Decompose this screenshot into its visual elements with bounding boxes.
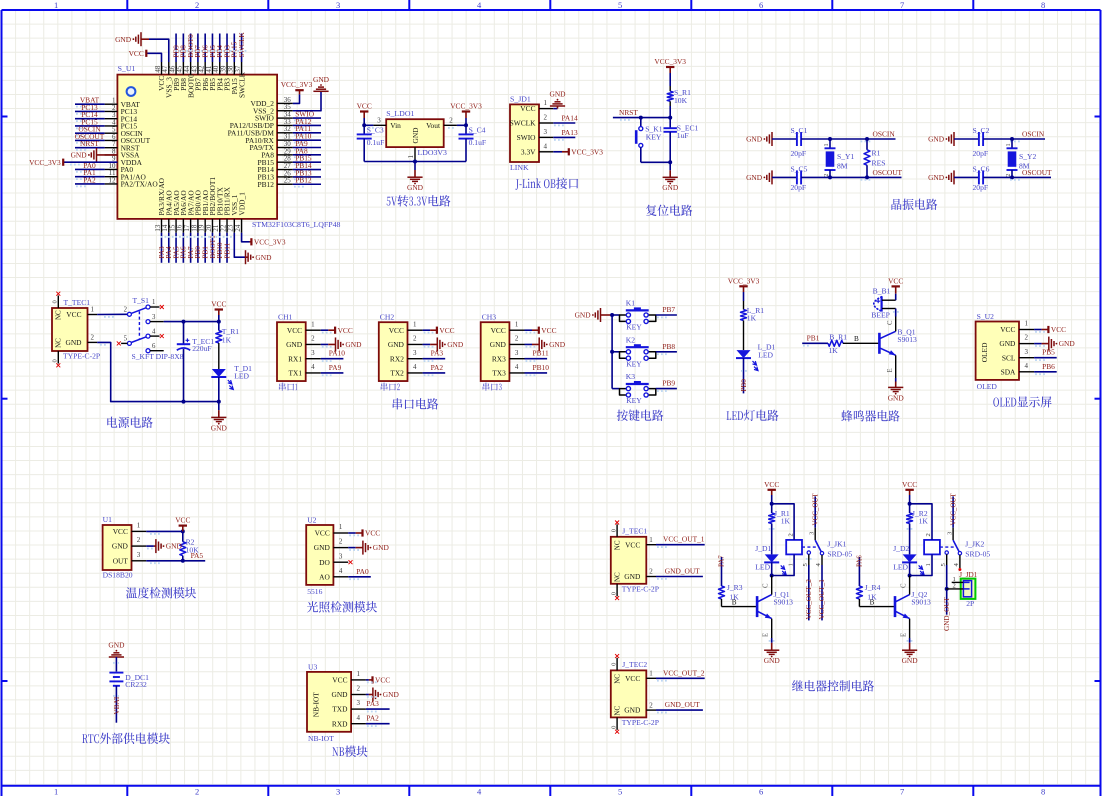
svg-text:5: 5 xyxy=(124,336,128,343)
svg-text:SRD-05: SRD-05 xyxy=(827,550,852,559)
relay J_JK2 common pin 3 VCC_OUT xyxy=(946,492,957,540)
relay J_JK1 pin 5 to VCC_OUT_2 xyxy=(802,554,813,620)
ground at key circuit xyxy=(575,308,613,322)
svg-text:GND: GND xyxy=(888,393,905,402)
power port VCC_3V3 at MCU pin 9 VDDA xyxy=(29,158,117,167)
svg-text:B: B xyxy=(870,599,875,607)
svg-text:PA9: PA9 xyxy=(329,363,342,372)
svg-text:KEY: KEY xyxy=(626,396,642,405)
svg-text:GND: GND xyxy=(115,35,132,44)
T_TEC1 pin 1 VCC stub xyxy=(88,306,98,315)
svg-text:OUT: OUT xyxy=(113,556,129,565)
svg-text:PA2/TX/AO: PA2/TX/AO xyxy=(121,180,159,189)
svg-text:VCC: VCC xyxy=(625,540,640,549)
svg-text:CH1: CH1 xyxy=(278,313,293,322)
title crystal circuit xyxy=(891,199,937,210)
svg-text:OSCOUT: OSCOUT xyxy=(873,168,903,177)
LED L_D1 xyxy=(736,342,776,370)
DS18B20 U1 body xyxy=(103,515,133,580)
svg-text:PB0: PB0 xyxy=(740,379,748,392)
battery D_DC1 CR232 xyxy=(109,673,149,689)
svg-text:BEEP: BEEP xyxy=(871,311,890,320)
svg-text:GND: GND xyxy=(286,340,303,349)
header CH3 pin 3 RX3 xyxy=(492,349,525,364)
svg-text:U1: U1 xyxy=(103,515,112,524)
svg-text:3: 3 xyxy=(152,314,156,321)
svg-text:T_S1: T_S1 xyxy=(133,296,150,305)
header CH1 pin 3 RX1 xyxy=(288,349,321,364)
MCU U1 top pin 45 PB8 xyxy=(176,34,188,91)
svg-text:4: 4 xyxy=(515,363,519,371)
wire CH1 pin 3 to PA10 xyxy=(321,349,345,362)
power port VCC relay J_R2 xyxy=(902,480,917,504)
svg-text:24: 24 xyxy=(234,224,242,232)
svg-text:GND: GND xyxy=(407,183,424,192)
svg-text:S_KFT DIP-8X8: S_KFT DIP-8X8 xyxy=(132,352,184,361)
resistor T_R1 1K xyxy=(216,322,240,369)
header U3 pin 2 GND xyxy=(331,685,365,700)
svg-text:2: 2 xyxy=(953,583,956,590)
svg-text:VCC_3V3: VCC_3V3 xyxy=(654,57,686,66)
title buzzer circuit xyxy=(841,410,899,421)
capacitor C3 0.1uF xyxy=(357,125,385,161)
resistor R1 RES (crystal) xyxy=(864,139,885,177)
power port VCC_3V3 at J-Link pin 4 xyxy=(553,147,603,156)
wire K3 to PB9 xyxy=(656,379,677,392)
svg-text:NC: NC xyxy=(55,338,63,348)
svg-text:VCC: VCC xyxy=(1051,325,1066,334)
svg-text:VCC_OUT_2: VCC_OUT_2 xyxy=(663,668,705,677)
svg-text:B: B xyxy=(732,599,737,607)
svg-text:GND: GND xyxy=(255,253,272,262)
header U3 pin 3 TXD xyxy=(332,699,366,714)
wire J_D2 cathode to collector node xyxy=(908,502,912,578)
svg-text:20pF: 20pF xyxy=(791,149,807,158)
header S_U2 body xyxy=(976,312,1019,391)
svg-text:RX2: RX2 xyxy=(390,354,404,363)
wire J_TEC1 GND to GND_OUT xyxy=(656,567,703,580)
MCU U1 right pin 35 VSS_2 xyxy=(253,103,293,115)
svg-text:PB1: PB1 xyxy=(807,334,820,343)
DS18B20 pin 3 OUT xyxy=(113,551,147,566)
LDO regulator U LDO1 body xyxy=(386,109,447,157)
wire CH2 pin 3 to PA3 xyxy=(423,349,446,362)
relay J_JK1 coil xyxy=(772,504,853,576)
svg-text:VCC: VCC xyxy=(365,529,380,538)
svg-text:SCL: SCL xyxy=(1002,353,1016,362)
resistor B_R1 1K xyxy=(828,332,879,355)
svg-text:3: 3 xyxy=(515,349,519,357)
MCU U1 top pin 42 PB6 xyxy=(198,34,210,91)
svg-text:VCC: VCC xyxy=(375,676,390,685)
svg-text:TYPE-C-2P: TYPE-C-2P xyxy=(63,352,100,361)
MCU U1 left pin 5 OSCIN xyxy=(75,125,143,138)
svg-text:PB12: PB12 xyxy=(257,180,274,189)
svg-text:J_JK1: J_JK1 xyxy=(827,540,846,549)
svg-text:K2: K2 xyxy=(626,335,635,344)
power port VCC at S_U2 pin 1 xyxy=(1034,325,1066,334)
svg-text:4: 4 xyxy=(1024,362,1028,370)
svg-text:0.1uF: 0.1uF xyxy=(367,138,385,147)
resistor J_R2 1K xyxy=(907,504,929,555)
svg-text:VCC: VCC xyxy=(888,276,903,285)
J_TEC1 pin 1 VCC stub xyxy=(646,536,656,545)
MCU U1 top pin 39 PB3 xyxy=(219,34,231,91)
svg-text:R1: R1 xyxy=(872,149,881,158)
svg-text:PB7: PB7 xyxy=(662,305,675,314)
LDO pin 2 Vout stub xyxy=(444,117,457,126)
wire CH1 pin 4 to PA9 xyxy=(321,363,344,376)
svg-text:S9013: S9013 xyxy=(911,597,931,606)
title 5V to 3.3V xyxy=(387,195,451,206)
svg-text:J_TEC2: J_TEC2 xyxy=(622,660,647,669)
MCU U1 right pin 28 PB15 xyxy=(257,154,321,167)
ground at U3 pin 2 xyxy=(366,688,400,702)
no-connect at U2 pin 3 xyxy=(349,560,353,564)
MCU U1 left pin 11 PA1/AO xyxy=(75,168,146,181)
MCU U1 right pin 31 PA10/RX xyxy=(245,132,321,145)
svg-text:GND: GND xyxy=(902,656,919,665)
J-Link pin 2 SWCLK xyxy=(510,114,554,128)
ground at buzzer xyxy=(888,382,905,403)
svg-text:2: 2 xyxy=(124,306,128,313)
T_TEC1 pin 2 GND stub xyxy=(88,334,98,343)
svg-text:RX3: RX3 xyxy=(492,354,506,363)
wire emitter of J_Q2 to ground xyxy=(907,619,913,643)
svg-text:NC: NC xyxy=(613,674,621,684)
wire reset bottom xyxy=(641,160,672,170)
svg-text:VCC_3V3: VCC_3V3 xyxy=(281,80,313,89)
svg-text:VCC: VCC xyxy=(338,326,353,335)
wire CH3 pin 3 to PB11 xyxy=(525,349,549,362)
ground at J-Link pin 1 xyxy=(549,90,566,109)
MCU U1 bottom pin 22 PB11/RX xyxy=(219,186,231,262)
header CH3 pin 4 TX3 xyxy=(492,363,524,378)
svg-text:1: 1 xyxy=(91,306,95,314)
power port VCC (power circuit) xyxy=(211,300,226,322)
svg-text:PA3: PA3 xyxy=(431,349,444,358)
svg-text:8: 8 xyxy=(1041,786,1045,796)
power port VCC at U3 pin 1 xyxy=(366,676,390,685)
relay J_JK2 pin 5 to GND_OUT and JD1 pin 2 xyxy=(940,554,951,631)
transistor B_Q1 S9013 xyxy=(879,320,917,373)
svg-text:S_U1: S_U1 xyxy=(118,64,136,73)
title power circuit xyxy=(107,417,152,428)
wire emitter to ground xyxy=(895,355,897,381)
wire S_U2 pin 4 to PB6 xyxy=(1034,362,1057,375)
svg-text:GND: GND xyxy=(411,127,420,144)
svg-text:1: 1 xyxy=(787,563,794,566)
svg-text:7: 7 xyxy=(900,0,904,10)
MCU U1 right pin 29 PA8 xyxy=(261,146,321,159)
svg-text:VCC: VCC xyxy=(389,326,404,335)
svg-text:VCC_OUT: VCC_OUT xyxy=(949,492,957,525)
wire key ground bus xyxy=(610,313,614,389)
svg-text:J_TEC1: J_TEC1 xyxy=(622,527,647,536)
svg-text:E: E xyxy=(887,368,894,372)
svg-text:E: E xyxy=(900,633,907,637)
svg-text:VBAT: VBAT xyxy=(113,695,121,714)
wire TEC1 VCC to switch xyxy=(97,314,127,318)
svg-text:4: 4 xyxy=(311,363,315,371)
svg-text:VCC_3V3: VCC_3V3 xyxy=(571,147,603,156)
MCU U1 STM32F103C8T6 body xyxy=(117,64,340,229)
svg-text:GND: GND xyxy=(166,542,183,551)
svg-text:S_LDO1: S_LDO1 xyxy=(386,109,414,118)
svg-text:GND: GND xyxy=(71,151,88,160)
svg-text:GND: GND xyxy=(928,173,945,182)
power port VCC at CH3 pin 1 xyxy=(525,326,557,335)
svg-text:GND: GND xyxy=(746,135,763,144)
svg-text:LED: LED xyxy=(755,562,770,571)
svg-text:GND: GND xyxy=(331,690,348,699)
svg-text:Vout: Vout xyxy=(426,121,441,130)
header U2 pin 3 DO xyxy=(319,552,348,567)
header U3 pin 4 RXD xyxy=(332,714,366,729)
header S_U2 pin 1 VCC xyxy=(1000,320,1034,335)
svg-text:GND: GND xyxy=(313,75,330,84)
MCU U1 bottom pin 18 PB0/AO xyxy=(190,189,202,262)
svg-text:4: 4 xyxy=(413,363,417,371)
svg-text:12: 12 xyxy=(109,176,117,184)
header CH2 body xyxy=(379,313,408,391)
svg-text:PB8: PB8 xyxy=(662,342,675,351)
svg-text:S_JD1: S_JD1 xyxy=(510,94,531,103)
svg-text:2: 2 xyxy=(195,0,199,10)
svg-text:1: 1 xyxy=(1024,320,1028,328)
svg-text:PA13: PA13 xyxy=(562,128,578,137)
svg-text:PB6: PB6 xyxy=(1042,362,1055,371)
relay J_JK2 coil xyxy=(910,504,991,576)
svg-text:TYPE-C-2P: TYPE-C-2P xyxy=(622,718,659,727)
svg-text:S_U2: S_U2 xyxy=(977,312,995,321)
ground at MCU pin 35 VSS_2 xyxy=(293,75,330,111)
svg-text:1: 1 xyxy=(311,320,315,328)
svg-text:10K: 10K xyxy=(674,96,688,105)
ground at crystal S_C2 top xyxy=(928,132,954,146)
wire U3 pin 3 to PA3 xyxy=(366,699,390,712)
svg-text:OSCIN: OSCIN xyxy=(873,130,896,139)
MCU U1 bottom pin 13 PA3/RX/AO xyxy=(154,177,166,262)
MCU U1 right pin 34 SWIO xyxy=(255,110,321,123)
svg-text:3: 3 xyxy=(339,552,343,560)
wire CH2 pin 4 to PA2 xyxy=(423,363,446,376)
MCU U1 left pin 2 PC13 xyxy=(75,103,137,116)
header S_U2 pin 3 SCL xyxy=(1002,348,1034,363)
svg-text:U3: U3 xyxy=(308,662,317,671)
header CH1 body xyxy=(277,313,306,391)
svg-text:2: 2 xyxy=(787,533,794,536)
MCU U1 bottom pin 15 PA5/AO xyxy=(168,190,180,263)
svg-text:J_D2: J_D2 xyxy=(893,544,909,553)
svg-text:25: 25 xyxy=(284,177,292,185)
MCU U1 left pin 3 PC14 xyxy=(75,110,137,123)
MCU U1 bottom pin 20 PB2/BOOT1 xyxy=(205,177,217,263)
svg-text:S_C6: S_C6 xyxy=(973,164,990,173)
svg-text:3: 3 xyxy=(137,551,141,559)
svg-text:1K: 1K xyxy=(222,335,232,344)
svg-text:GND: GND xyxy=(1059,339,1076,348)
svg-text:KEY: KEY xyxy=(626,359,642,368)
svg-text:5: 5 xyxy=(618,0,622,10)
wire TEC1 GND to bottom rail xyxy=(97,342,221,403)
svg-text:PA2: PA2 xyxy=(366,714,379,723)
capacitor S_C2 20pF xyxy=(954,126,990,158)
svg-text:NC: NC xyxy=(55,310,63,320)
title J-Link OB xyxy=(515,178,578,190)
MCU U1 left pin 7 NRST xyxy=(75,139,140,152)
ground at MCU pin 8 VSSA xyxy=(71,148,118,162)
MCU U1 left pin 6 OSCOUT xyxy=(75,132,151,145)
svg-text:4: 4 xyxy=(339,567,343,575)
power port VCC at U2 pin 1 xyxy=(348,529,380,538)
svg-text:PA10: PA10 xyxy=(329,349,345,358)
MCU U1 top pin 44 BOOT0 xyxy=(183,34,195,98)
MCU U1 bottom pin 24 VDD_1 xyxy=(234,192,246,233)
svg-text:VCC_3V3: VCC_3V3 xyxy=(254,237,286,246)
svg-text:VCC: VCC xyxy=(315,529,330,538)
svg-text:GND: GND xyxy=(112,542,129,551)
LED J_D2 xyxy=(893,544,924,575)
power port VCC at CH2 pin 1 xyxy=(423,326,455,335)
MCU U1 right pin 26 PB13 xyxy=(257,168,321,181)
svg-text:GND: GND xyxy=(662,183,679,192)
wire PB1 to base resistor xyxy=(802,334,828,347)
MCU U1 bottom pin 23 VSS_1 xyxy=(227,194,239,233)
TYPE-C connector J_TEC1 body xyxy=(611,527,659,594)
MCU U1 bottom pin 19 PB1/AO xyxy=(198,189,210,262)
ground at crystal S_C5 bottom xyxy=(746,170,772,184)
svg-text:1: 1 xyxy=(357,670,361,678)
svg-text:2: 2 xyxy=(544,114,548,122)
svg-text:VCC: VCC xyxy=(439,326,454,335)
svg-text:2: 2 xyxy=(137,536,141,544)
MCU U1 bottom pin 21 PB10/TX xyxy=(212,187,224,263)
MCU U1 top pin 38 PA15 xyxy=(227,34,239,95)
power port VCC buzzer xyxy=(888,276,903,300)
power port VCC_3V3 at MCU pin 24 VDD_1 xyxy=(242,233,286,247)
svg-text:C: C xyxy=(900,583,907,588)
ground at crystal S_C6 bottom xyxy=(928,170,954,184)
svg-text:PB10: PB10 xyxy=(533,363,550,372)
svg-text:J_R4: J_R4 xyxy=(865,583,881,592)
svg-text:1: 1 xyxy=(649,670,653,678)
wire R1 to NRST node xyxy=(669,106,671,118)
capacitor S_C5 20pF xyxy=(772,164,808,191)
T_TEC1 bottom no-connect pin 0 xyxy=(52,351,61,367)
push button K2 KEY xyxy=(612,335,656,368)
MCU U1 bottom pin 16 PA6/AO xyxy=(176,190,188,263)
svg-text:DS18B20: DS18B20 xyxy=(103,571,133,580)
wire base of J_Q1 xyxy=(722,599,758,607)
svg-text:PA3: PA3 xyxy=(366,699,379,708)
header CH2 pin 4 TX2 xyxy=(390,363,422,378)
svg-text:VCC: VCC xyxy=(541,326,556,335)
svg-text:GND: GND xyxy=(490,340,507,349)
MCU U1 top pin 43 PB7 xyxy=(190,34,202,91)
wire LDO ground rail xyxy=(364,160,466,171)
MCU U1 right pin 27 PB14 xyxy=(257,161,321,174)
header CH1 pin 4 TX1 xyxy=(289,363,321,378)
TYPE-C connector T_TEC1 body xyxy=(52,298,100,361)
svg-text:20pF: 20pF xyxy=(973,183,989,192)
svg-text:1: 1 xyxy=(413,320,417,328)
svg-text:1: 1 xyxy=(1005,143,1012,146)
header CH1 pin 2 GND xyxy=(286,335,321,350)
svg-text:KEY: KEY xyxy=(646,133,662,142)
svg-text:VCC: VCC xyxy=(357,102,372,111)
wire buzzer to collector xyxy=(893,309,899,332)
header U2 pin 4 AO xyxy=(319,567,348,582)
resistor L_R1 1K xyxy=(741,301,765,350)
svg-text:3: 3 xyxy=(336,0,340,10)
J_TEC1 bottom no-connect pin 0 xyxy=(610,584,619,600)
svg-text:GND_OUT: GND_OUT xyxy=(665,700,700,709)
svg-text:B: B xyxy=(854,335,859,343)
svg-text:GND: GND xyxy=(388,340,405,349)
svg-text:GND: GND xyxy=(746,173,763,182)
svg-text:VCC: VCC xyxy=(625,674,640,683)
title RTC supply module xyxy=(82,733,170,744)
svg-text:3: 3 xyxy=(311,349,315,357)
svg-text:1: 1 xyxy=(54,786,58,796)
svg-text:S_C4: S_C4 xyxy=(469,126,486,135)
MCU U1 right pin 33 PA12/USB/DP xyxy=(230,117,321,130)
svg-text:OLED: OLED xyxy=(980,342,989,362)
svg-text:J_D1: J_D1 xyxy=(755,544,771,553)
svg-text:B_R1: B_R1 xyxy=(829,332,847,341)
svg-text:PA2: PA2 xyxy=(431,363,444,372)
svg-text:STM32F103C8T6_LQFP48: STM32F103C8T6_LQFP48 xyxy=(252,220,340,229)
capacitor S_C6 20pF xyxy=(954,164,990,191)
svg-text:RES: RES xyxy=(872,158,886,167)
wire J_TEC1 VCC to VCC_OUT_1 xyxy=(656,535,705,548)
MCU U1 top pin 48 VCC xyxy=(154,62,166,91)
svg-text:S_Y2: S_Y2 xyxy=(1019,152,1037,161)
svg-text:VCC_OUT_1: VCC_OUT_1 xyxy=(818,579,826,620)
svg-text:PB5: PB5 xyxy=(1042,348,1055,357)
wire J-Link pin 3 to PA13 xyxy=(553,128,578,141)
svg-text:PA7: PA7 xyxy=(718,555,726,567)
svg-text:VCC: VCC xyxy=(129,49,144,58)
power port VCC at MCU pin 48 xyxy=(129,49,162,62)
svg-text:NC: NC xyxy=(613,706,621,716)
J_TEC2 bottom no-connect pin 0 xyxy=(610,717,619,733)
DS18B20 pin 1 VCC xyxy=(113,522,147,537)
capacitor C4 0.1uF xyxy=(459,125,487,161)
svg-text:0.1uF: 0.1uF xyxy=(469,138,487,147)
svg-text:LINK: LINK xyxy=(510,163,529,172)
svg-text:220uF: 220uF xyxy=(192,344,211,353)
header CH1 pin 1 VCC xyxy=(287,320,321,335)
svg-text:3: 3 xyxy=(544,128,548,136)
svg-text:VDD_1: VDD_1 xyxy=(237,192,246,216)
resistor J_R4 1K xyxy=(856,583,880,607)
svg-text:4: 4 xyxy=(544,142,548,150)
LED J_D1 xyxy=(755,544,786,575)
svg-text:2: 2 xyxy=(649,701,653,709)
title light module xyxy=(307,601,377,612)
svg-text:VCC: VCC xyxy=(287,326,302,335)
wire J_D1 cathode to collector node xyxy=(770,502,774,578)
svg-text:SWCLK: SWCLK xyxy=(238,32,246,58)
header CH3 pin 1 VCC xyxy=(491,320,525,335)
header U3 pin 1 VCC xyxy=(332,670,366,685)
svg-text:NC: NC xyxy=(613,540,621,550)
wire S_U2 pin 3 to PB5 xyxy=(1034,348,1057,361)
MCU U1 right pin 30 PA9/TX xyxy=(250,139,321,152)
svg-text:GND: GND xyxy=(575,311,592,320)
